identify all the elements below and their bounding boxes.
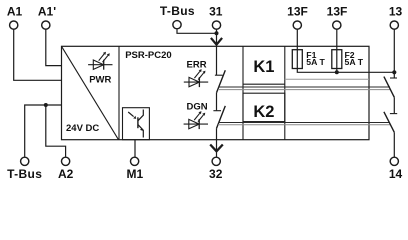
mechanical linkage K1 upper line [219,86,391,88]
svg-text:A1: A1 [7,5,23,19]
junction dot T-Bus/A2 [44,103,48,107]
terminal 32 circle [212,157,220,165]
wire 31 into box [216,30,218,47]
svg-text:ERR: ERR [187,60,207,71]
junction dot F2 bottom [335,70,339,74]
mechanical linkage K2 lower line [218,124,390,126]
wire between switches [216,93,218,111]
wire T-Bus top to node 31 wire [177,29,217,33]
svg-text:A2: A2 [58,167,74,181]
wire A1 to box [14,30,62,81]
svg-text:PSR-PC20: PSR-PC20 [125,50,171,61]
contact 13-14 upper blade [384,77,394,98]
fuse compartment bottom edge [285,78,369,80]
terminal M1 circle [130,157,138,165]
relay K2 box [243,93,285,121]
relay section partition right [284,46,286,139]
svg-text:PWR: PWR [89,75,111,86]
LED DGN symbol [184,111,208,129]
wire A1' to box [46,30,62,66]
wire 31-32 inside box [216,46,218,75]
DGN switch fixed contact tick [213,110,221,112]
main enclosure box [62,46,370,139]
svg-text:13F: 13F [327,5,348,19]
fuse F2 body [332,50,342,69]
wire 13 down to fuse bus [393,30,395,78]
K1 compartment bottom divider [243,83,285,85]
svg-text:5A T: 5A T [345,57,364,67]
junction dot T-Bus/31 [215,31,219,35]
arrow out of box at 32 [210,145,223,152]
terminal A1' circle [42,21,50,29]
contact 13-14 lower blade [384,112,394,133]
terminal 31 circle [212,21,220,29]
wire T-Bus bottom to box [25,105,62,157]
terminal A1 circle [10,21,18,29]
svg-text:14: 14 [389,167,403,181]
LED PWR symbol [88,52,112,70]
wire to terminal 14 [393,132,395,157]
contact 13-14 upper fixed tick [390,77,397,79]
svg-text:A1': A1' [38,5,56,19]
svg-text:13: 13 [389,5,403,19]
svg-text:31: 31 [209,5,223,19]
DGN switch blade [217,106,226,128]
wire 13F left through fuse F1 [297,30,394,73]
arrow into box at 31 [211,38,222,45]
relay section partition left [242,46,244,139]
optocoupler box [123,108,150,140]
terminal 13F right circle [333,21,341,29]
terminal T-Bus bottom circle [21,157,29,165]
svg-text:24V DC: 24V DC [66,123,99,134]
contact 13-14 lower fixed tick [390,113,397,115]
ERR switch blade [217,70,226,93]
svg-text:T-Bus: T-Bus [7,167,42,181]
svg-text:5A T: 5A T [306,57,325,67]
terminal 14 circle [390,157,398,165]
ERR switch fixed contact tick [215,74,223,76]
fuse F1 body [292,50,302,69]
mechanical linkage K1 lower line [218,89,391,91]
wire 13F right through fuse F2 [336,30,338,73]
optocoupler phototransistor [128,110,143,138]
svg-text:13F: 13F [287,5,308,19]
terminal 13 circle [390,21,398,29]
wire to terminal 32 [216,140,218,157]
svg-text:DGN: DGN [187,102,208,113]
wire A2 branch [46,105,66,157]
wire to box bottom [216,128,218,139]
LED ERR symbol [184,69,208,87]
terminal A2 circle [61,157,69,165]
terminal 13F left circle [293,21,301,29]
terminal T-Bus top circle [173,21,181,29]
mechanical linkage K2 upper line [219,122,390,124]
svg-text:T-Bus: T-Bus [160,4,195,18]
wire M1 [134,140,136,157]
svg-text:K2: K2 [253,103,274,121]
svg-text:32: 32 [209,167,223,181]
junction dot 13/fuse bus [392,70,396,74]
power supply diagonal [62,46,119,139]
svg-text:K1: K1 [253,58,274,76]
power section partition [118,46,120,139]
wire between right contacts [393,97,395,113]
svg-text:M1: M1 [126,167,143,181]
